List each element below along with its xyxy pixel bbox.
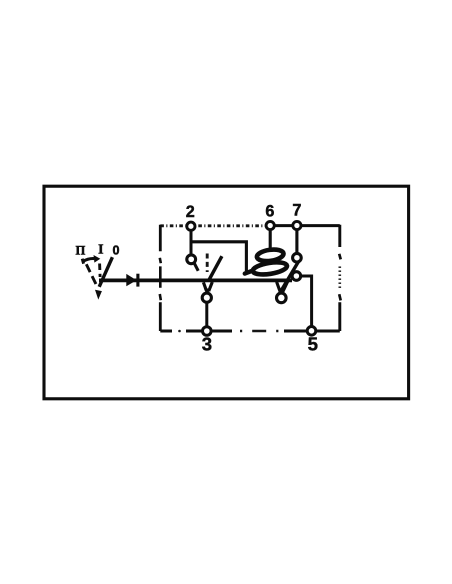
left fixed contact [187, 255, 196, 264]
terminal 5 [307, 327, 316, 336]
actuator shaft [99, 278, 292, 282]
svg-text:5: 5 [308, 334, 318, 355]
wire terminal2 down to fixed contact [190, 229, 193, 256]
svg-text:2: 2 [186, 203, 195, 221]
left contact arm arrow below shaft [203, 282, 212, 291]
terminal 7 [293, 221, 301, 229]
lever tip arrowhead [95, 290, 102, 300]
switch housing boundary bottom edge (dash-dot) [160, 330, 339, 333]
lever position I (dashed) [98, 264, 101, 278]
switch housing boundary top edge (dash-dot) [160, 224, 265, 227]
wire branch from terminal2 to heater coil [191, 242, 246, 271]
terminal 3 [203, 327, 212, 336]
lever handle (position 0, solid) [99, 257, 112, 287]
wire mid contact to terminal5 [299, 276, 312, 327]
left moving contact arm [208, 256, 222, 281]
lever position П (dashed) [86, 264, 96, 285]
left fixed contact tail [194, 263, 198, 270]
switch housing boundary left edge (dash-dot) [159, 225, 162, 331]
right mid contact [292, 272, 301, 281]
wire terminal6 down to coil [269, 229, 272, 251]
terminal 6 [266, 221, 274, 229]
left contact neutral position (dashed) [206, 254, 209, 273]
svg-text:3: 3 [202, 334, 212, 355]
svg-text:6: 6 [265, 203, 274, 221]
right upper contact [293, 253, 302, 262]
left lower contact [202, 293, 211, 302]
switch housing boundary right edge (dash-dot) [338, 225, 341, 331]
svg-text:7: 7 [292, 202, 301, 220]
svg-text:0: 0 [112, 244, 119, 258]
wire terminal7 down to fixed contact [295, 229, 298, 255]
wire lower left contact to terminal3 [205, 302, 208, 328]
shaft arrow symbol [126, 274, 136, 286]
border frame [44, 186, 409, 399]
rotation arc arrow from П to I [83, 259, 95, 262]
right contact arm arrow below shaft [277, 281, 288, 292]
right moving contact arm [279, 260, 300, 295]
svg-text:I: I [98, 242, 103, 257]
heater coil (bimetal element) [245, 269, 257, 273]
svg-text:П: П [76, 244, 86, 258]
jumper wire between terminals 6 and 7 (solid top edge) [265, 224, 340, 227]
right lower contact [277, 293, 287, 303]
terminal 2 [187, 222, 195, 230]
